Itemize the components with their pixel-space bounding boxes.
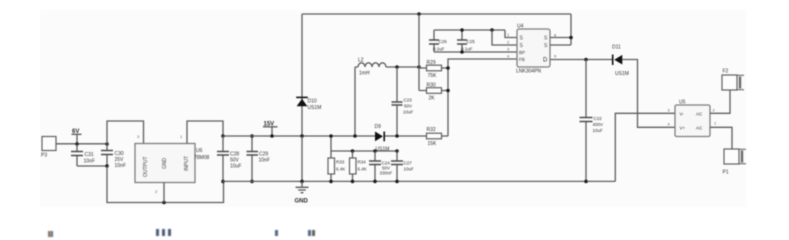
capacitor C26 <box>429 30 447 52</box>
svg-text:V-: V- <box>680 112 685 117</box>
wire bypass cap rect bottom rail to BP pin <box>434 51 517 53</box>
svg-text:10uF: 10uF <box>403 110 414 115</box>
wire bottom rail up to bridge V- <box>615 113 675 181</box>
svg-text:D9: D9 <box>375 124 382 130</box>
junction R30 right <box>446 89 450 93</box>
connector P1 <box>723 149 747 176</box>
capacitor C31 <box>71 144 95 166</box>
wire bridge AC to F2 <box>710 90 730 113</box>
junction L2 left on main rail <box>353 134 357 138</box>
main rail 15V <box>223 135 448 137</box>
svg-text:P3: P3 <box>41 153 47 159</box>
wire to U4 pin S2 <box>492 30 517 45</box>
wire feedback column <box>448 59 517 136</box>
svg-text:US1M: US1M <box>308 105 322 111</box>
cropped text fragment 4 <box>308 230 311 237</box>
fuse terminal F2 <box>722 69 744 91</box>
junction C29 top <box>250 134 254 138</box>
cropped text fragment 1 <box>48 231 51 237</box>
svg-text:C25: C25 <box>467 39 476 44</box>
connector P3 <box>41 137 56 159</box>
svg-text:U6: U6 <box>196 148 203 154</box>
svg-text:R33: R33 <box>336 160 345 165</box>
diode D11 <box>612 45 629 78</box>
junction R33 bottom <box>329 180 333 184</box>
svg-text:C27: C27 <box>404 161 413 166</box>
cropped text fragment ill <box>156 229 159 236</box>
bridge rectifier U5 <box>675 100 710 137</box>
junction R34 bottom <box>351 180 355 184</box>
svg-text:10uF: 10uF <box>404 167 415 172</box>
svg-text:6.4K: 6.4K <box>358 167 367 172</box>
junction C28 bottom rail start <box>221 180 225 184</box>
junction C22 top <box>584 58 588 62</box>
wire to U4 pin S1 <box>505 30 517 38</box>
wire gnd stub <box>301 136 303 181</box>
capacitor C28 <box>217 136 241 181</box>
svg-text:1mH: 1mH <box>359 71 370 77</box>
wire vertical from top rail through R29 R30 <box>418 14 420 91</box>
svg-text:75K: 75K <box>428 73 438 79</box>
svg-text:D11: D11 <box>612 45 621 51</box>
resistor R30 <box>419 83 448 102</box>
svg-text:C22: C22 <box>594 116 603 121</box>
svg-text:R29: R29 <box>427 60 436 66</box>
capacitor C24 <box>369 151 393 181</box>
wire U4 D pin net <box>550 59 612 61</box>
svg-text:V+: V+ <box>680 126 686 131</box>
svg-text:400V: 400V <box>593 122 604 127</box>
svg-text:78M08: 78M08 <box>194 155 210 161</box>
svg-text:R34: R34 <box>358 160 367 165</box>
svg-text:2K: 2K <box>429 96 436 102</box>
svg-text:330nF: 330nF <box>380 171 393 176</box>
svg-text:L2: L2 <box>358 58 364 64</box>
junction C25 top <box>460 28 464 32</box>
svg-text:0.2uF: 0.2uF <box>433 47 445 52</box>
wire D11 to bridge V+ <box>622 60 675 128</box>
svg-text:U5: U5 <box>679 100 686 106</box>
junction C29 bottom <box>250 180 254 184</box>
svg-text:P1: P1 <box>723 170 729 176</box>
junction C30 top <box>105 142 109 146</box>
wire output loop to regulator pin 3 <box>107 121 144 144</box>
svg-text:AC: AC <box>696 126 703 131</box>
svg-text:10nF: 10nF <box>259 158 270 164</box>
capacitor C27 <box>391 151 414 181</box>
wire L2 left leg down to main rail <box>354 67 356 136</box>
junction sub rail C24 <box>373 149 377 153</box>
wire output divider sub rail <box>331 136 397 151</box>
svg-text:OUTPUT: OUTPUT <box>143 156 149 177</box>
capacitor C30 <box>101 144 126 169</box>
inductor L2 <box>355 58 419 77</box>
bottom ground rail <box>223 180 616 182</box>
resistor R29 <box>419 60 448 79</box>
junction S right pins <box>569 36 573 40</box>
capacitor C23 <box>392 67 414 136</box>
svg-text:BP: BP <box>519 50 525 55</box>
junction input/C28 on main rail <box>221 134 225 138</box>
junction S pin drop <box>490 28 494 32</box>
wire bypass cap rect top rail <box>434 29 505 31</box>
svg-text:D: D <box>543 58 548 64</box>
svg-text:6.4K: 6.4K <box>336 167 345 172</box>
capacitor C25 <box>457 30 475 52</box>
svg-text:10uF: 10uF <box>593 128 604 133</box>
wire ground return left loop <box>107 166 224 203</box>
top rail wire <box>302 13 571 15</box>
svg-text:C26: C26 <box>439 39 448 44</box>
junction C27 bottom <box>395 180 399 184</box>
svg-text:50V: 50V <box>404 104 412 109</box>
wire C31 bottom to C30 bottom <box>77 165 107 167</box>
svg-text:FB: FB <box>519 57 525 62</box>
wire input loop to main rail <box>187 121 223 144</box>
junction regulator GND pin at bottom wire <box>162 201 166 205</box>
svg-text:10nF: 10nF <box>115 163 126 169</box>
junction sub rail left on main rail <box>329 134 333 138</box>
svg-text:U4: U4 <box>517 24 524 30</box>
resistor R33 <box>328 151 345 181</box>
svg-text:D10: D10 <box>308 99 317 105</box>
junction C23 bottom on main rail <box>395 134 399 138</box>
wires U4 right S pins to top rail <box>550 14 571 45</box>
resistor R32 on main rail <box>427 127 442 147</box>
regulator U6 78M08 <box>135 144 210 183</box>
svg-text:R32: R32 <box>427 127 436 133</box>
junction D10 branch on main rail <box>300 134 304 138</box>
svg-text:10uF: 10uF <box>230 164 241 170</box>
svg-text:INPUT: INPUT <box>184 156 190 171</box>
svg-text:AC: AC <box>696 112 703 117</box>
junction sub rail C27 corner <box>395 149 399 153</box>
IC U4 LNK304PN <box>516 24 550 75</box>
junction L2 wire to R divider vertical <box>417 65 421 69</box>
junction gnd on bottom rail <box>300 180 304 184</box>
junction R29 right <box>446 66 450 70</box>
wire left vertical with D10 <box>301 14 303 136</box>
junction C30 bottom <box>105 164 109 168</box>
svg-text:15K: 15K <box>428 141 438 147</box>
ground symbol GND <box>295 181 309 204</box>
svg-text:US1M: US1M <box>615 71 629 77</box>
capacitor C29 <box>247 136 270 181</box>
svg-text:C23: C23 <box>404 98 413 103</box>
schematic background sheet <box>40 10 746 207</box>
svg-text:C31: C31 <box>85 152 94 158</box>
svg-text:GND: GND <box>295 199 309 205</box>
wire P3 to 6V node <box>56 143 107 145</box>
svg-text:10nF: 10nF <box>84 159 95 165</box>
svg-text:GND: GND <box>162 158 168 170</box>
junction C24 bottom <box>373 180 377 184</box>
junction C31 top <box>75 142 79 146</box>
wire bridge AC to P1 <box>710 127 732 149</box>
junction sub rail R34 <box>351 149 355 153</box>
capacitor C22 <box>580 60 604 182</box>
junction C25 bottom <box>460 50 464 54</box>
junction C22 bottom <box>584 180 588 184</box>
svg-text:LNK304PN: LNK304PN <box>516 69 541 75</box>
resistor R34 <box>350 151 367 181</box>
svg-text:R30: R30 <box>427 83 436 89</box>
svg-text:F2: F2 <box>723 69 729 75</box>
junction on top rail <box>417 12 421 16</box>
junction C23 top on L2 wire <box>395 65 399 69</box>
wire regulator gnd pin down <box>163 183 165 203</box>
diode D10 <box>296 97 321 111</box>
cropped text fragment 3 <box>275 230 278 236</box>
diode D9 on main rail <box>375 124 390 153</box>
